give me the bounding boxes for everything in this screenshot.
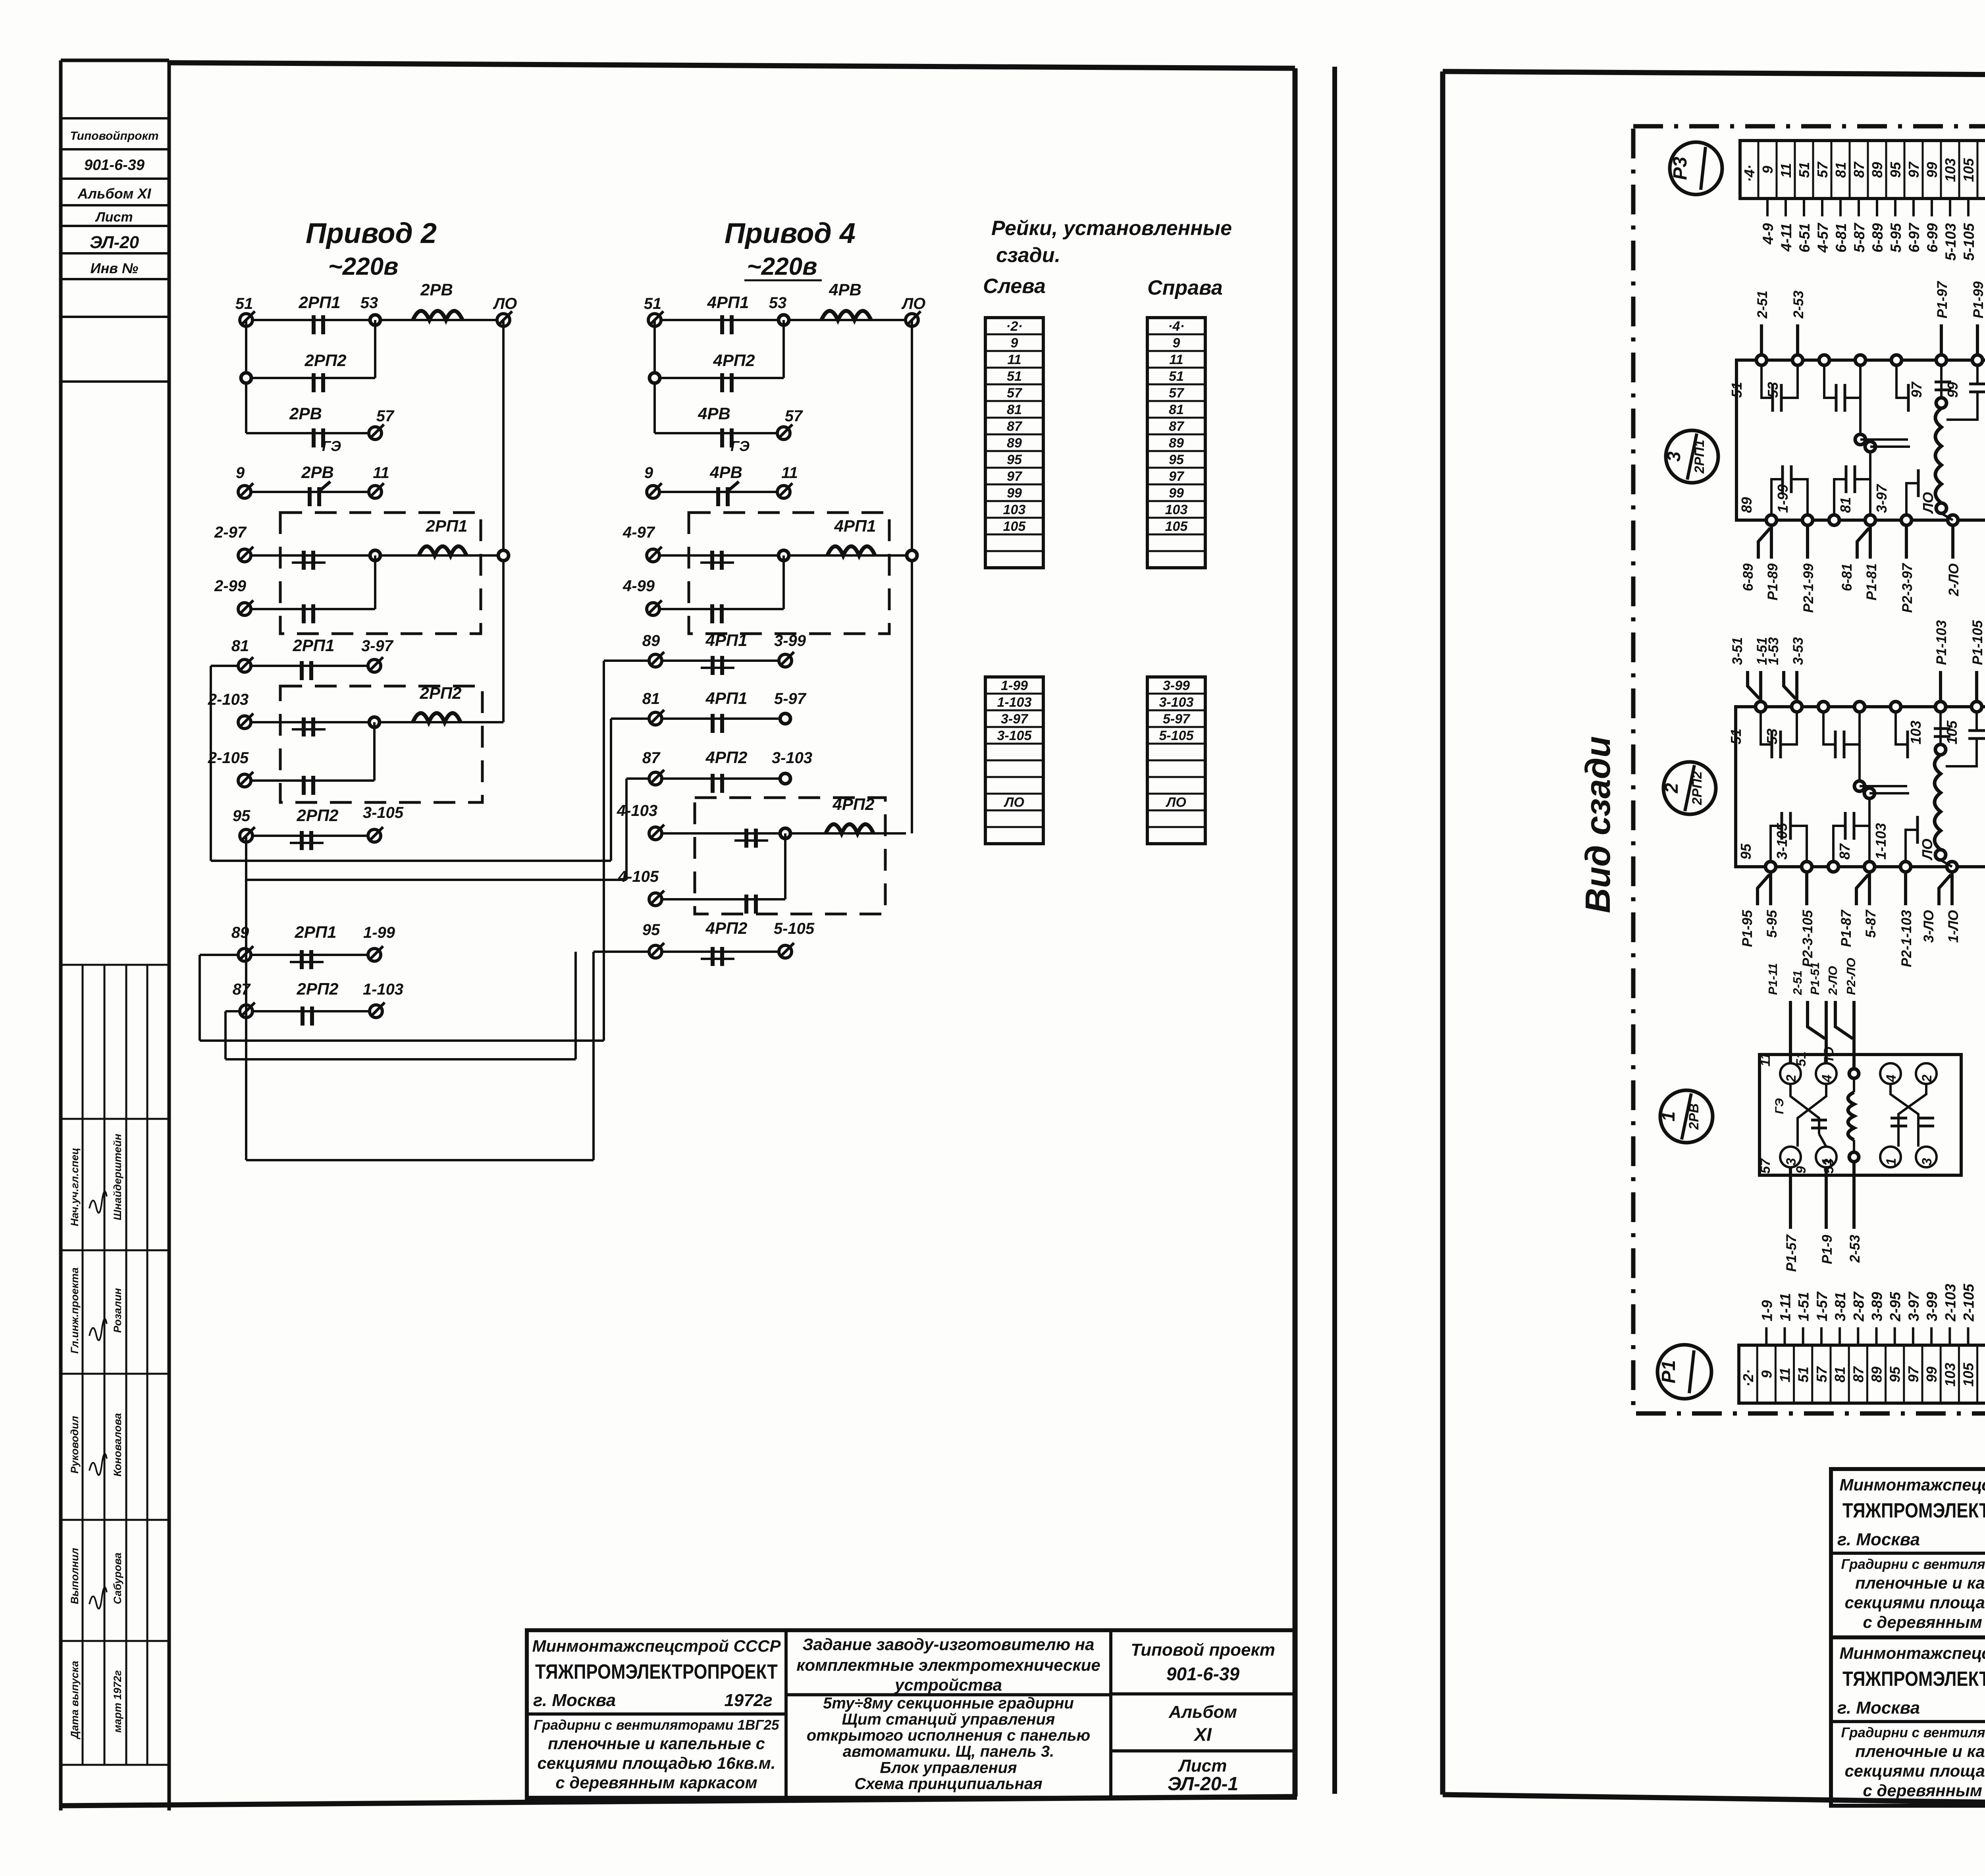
svg-text:·4·: ·4· bbox=[1741, 165, 1758, 182]
svg-text:51: 51 bbox=[235, 295, 253, 312]
relay coil 2РВ bbox=[413, 280, 463, 320]
terminal rail Р1 designation circle bbox=[1657, 1345, 1711, 1399]
svg-text:1: 1 bbox=[1658, 1111, 1679, 1122]
svg-text:1-ЛО: 1-ЛО bbox=[1946, 910, 1961, 943]
svg-text:9: 9 bbox=[1760, 166, 1776, 174]
svg-text:г. Москва: г. Москва bbox=[1837, 1530, 1920, 1549]
svg-text:4: 4 bbox=[1819, 1074, 1835, 1082]
svg-text:ГЭ: ГЭ bbox=[322, 438, 341, 454]
svg-text:Р2-1-99: Р2-1-99 bbox=[1801, 563, 1816, 613]
svg-text:2-53: 2-53 bbox=[1847, 1234, 1863, 1263]
svg-text:Лист: Лист bbox=[94, 210, 133, 225]
relay block 1/2РВ outline and internals bbox=[1760, 1055, 1961, 1175]
svg-text:57: 57 bbox=[376, 407, 395, 425]
svg-text:103: 103 bbox=[1908, 721, 1924, 744]
svg-text:105: 105 bbox=[1944, 720, 1960, 744]
svg-text:81: 81 bbox=[1837, 497, 1854, 513]
svg-text:103: 103 bbox=[1942, 158, 1958, 182]
contact row 89 4РП1 3-99 bbox=[604, 631, 806, 675]
svg-text:Р1-97: Р1-97 bbox=[1935, 281, 1950, 318]
terminal 2-97 row: contact and coil 2РП1 bbox=[214, 517, 509, 570]
terminal ЛО (2) bbox=[493, 295, 517, 326]
svg-text:2-95: 2-95 bbox=[1887, 1292, 1904, 1322]
svg-text:секциями площадью 16кв.м.: секциями площадью 16кв.м. bbox=[537, 1754, 775, 1772]
svg-text:Р1-89: Р1-89 bbox=[1765, 563, 1781, 600]
svg-text:81: 81 bbox=[642, 690, 660, 708]
svg-text:105: 105 bbox=[1003, 519, 1026, 534]
svg-text:г. Москва: г. Москва bbox=[533, 1691, 616, 1710]
svg-text:2РП1: 2РП1 bbox=[293, 636, 335, 655]
svg-text:пленочные и капельные с: пленочные и капельные с bbox=[1855, 1742, 1985, 1760]
svg-text:устройства: устройства bbox=[894, 1675, 1002, 1694]
svg-text:ТЯЖПРОМЭЛЕКТРОПРОЕКТ: ТЯЖПРОМЭЛЕКТРОПРОЕКТ bbox=[1842, 1500, 1985, 1522]
svg-text:4РВ: 4РВ bbox=[709, 463, 742, 482]
relay coil 4РВ bbox=[821, 280, 871, 320]
svg-text:Типовой проект: Типовой проект bbox=[1131, 1640, 1275, 1660]
svg-text:103: 103 bbox=[1003, 502, 1026, 517]
svg-text:Градирни с вентиляторами 1ВГ25: Градирни с вентиляторами 1ВГ25 bbox=[1841, 1557, 1985, 1572]
svg-text:5-87: 5-87 bbox=[1863, 909, 1879, 938]
svg-text:2: 2 bbox=[1784, 1074, 1799, 1082]
svg-text:Градирни с вентиляторами 1ВГ25: Градирни с вентиляторами 1ВГ25 bbox=[534, 1717, 779, 1733]
svg-text:57: 57 bbox=[1814, 161, 1831, 178]
svg-text:3-105: 3-105 bbox=[1774, 823, 1790, 860]
svg-text:87: 87 bbox=[1007, 419, 1023, 434]
svg-text:4-97: 4-97 bbox=[622, 524, 655, 541]
relay block 3/2РП1 leads and wire labels bbox=[1729, 281, 1985, 613]
terminal rail table Слева (upper) bbox=[985, 318, 1043, 568]
svg-text:9: 9 bbox=[1011, 335, 1018, 351]
svg-text:Р1-95: Р1-95 bbox=[1740, 910, 1755, 947]
svg-text:53: 53 bbox=[1764, 729, 1780, 744]
svg-text:5-87: 5-87 bbox=[1851, 222, 1867, 253]
contact row 87 4РП2 3-103 bbox=[626, 748, 812, 793]
contact 2РП2 (parallel branch) bbox=[241, 320, 375, 433]
svg-text:51: 51 bbox=[1007, 369, 1022, 384]
dashed enclosure 4РП2 relay unit bbox=[695, 798, 885, 914]
svg-text:89: 89 bbox=[1869, 162, 1885, 178]
svg-text:ЛО: ЛО bbox=[1165, 795, 1186, 810]
svg-text:3-97: 3-97 bbox=[1873, 484, 1890, 513]
svg-text:89: 89 bbox=[642, 632, 660, 650]
svg-text:6-81: 6-81 bbox=[1839, 563, 1855, 591]
contact row 95 2РП2 3-105 bbox=[233, 804, 404, 850]
terminal 4-103 row: contact and coil 4РП2 bbox=[617, 795, 906, 848]
terminal 2-99 row: contact 2РП2 bbox=[214, 555, 375, 623]
svg-text:81: 81 bbox=[231, 637, 249, 655]
svg-text:автоматики. Щ, панель 3.: автоматики. Щ, панель 3. bbox=[843, 1743, 1054, 1760]
svg-text:2-51: 2-51 bbox=[1755, 291, 1770, 319]
svg-text:Блок управления: Блок управления bbox=[880, 1759, 1017, 1776]
svg-text:·2·: ·2· bbox=[1006, 319, 1023, 334]
svg-text:2: 2 bbox=[1661, 783, 1682, 794]
svg-text:95: 95 bbox=[233, 807, 251, 825]
svg-text:ЭЛ-20: ЭЛ-20 bbox=[90, 233, 139, 252]
svg-text:ГЭ: ГЭ bbox=[1773, 1098, 1786, 1114]
contact row 81 4РП1 5-97 bbox=[611, 689, 807, 733]
svg-text:97: 97 bbox=[1908, 381, 1925, 398]
panel outline (dash-dot) Вид сзади bbox=[1633, 126, 1985, 1413]
svg-text:Привод 4: Привод 4 bbox=[725, 218, 856, 249]
svg-text:57: 57 bbox=[785, 407, 803, 425]
svg-text:87: 87 bbox=[642, 749, 661, 767]
svg-text:105: 105 bbox=[1165, 519, 1188, 534]
contact 2РВ ГЭ branch with terminal 57 bbox=[246, 404, 395, 454]
svg-text:3-51: 3-51 bbox=[1730, 637, 1745, 665]
svg-text:4РП2: 4РП2 bbox=[705, 919, 748, 937]
dashed enclosure 2РП2 relay unit bbox=[280, 686, 482, 802]
svg-text:2-51: 2-51 bbox=[1790, 970, 1804, 995]
svg-text:Градирни с вентиляторами 1ВГ25: Градирни с вентиляторами 1ВГ25 bbox=[1841, 1725, 1985, 1741]
svg-text:Альбом: Альбом bbox=[1168, 1702, 1237, 1722]
svg-text:9: 9 bbox=[236, 464, 245, 482]
svg-text:март 1972г: март 1972г bbox=[112, 1670, 123, 1733]
svg-text:51: 51 bbox=[1796, 162, 1812, 178]
svg-text:Коновалова: Коновалова bbox=[112, 1413, 123, 1477]
terminal rail Р1 strip bbox=[1739, 1283, 1985, 1403]
svg-text:4: 4 bbox=[1884, 1074, 1899, 1082]
svg-text:1-103: 1-103 bbox=[1873, 823, 1889, 860]
wire row 51-2РП1-53-2РВ-ЛО bbox=[246, 319, 503, 321]
svg-text:9: 9 bbox=[1173, 335, 1180, 351]
centre separation lines between sheets bbox=[1332, 67, 1337, 1794]
svg-text:3-103: 3-103 bbox=[772, 749, 812, 767]
svg-text:3-53: 3-53 bbox=[1790, 637, 1806, 665]
svg-text:11: 11 bbox=[1007, 352, 1021, 367]
terminal 4-99 row: contact 4РП2 bbox=[622, 555, 784, 623]
svg-text:1-103: 1-103 bbox=[997, 695, 1032, 710]
svg-text:Р1: Р1 bbox=[1658, 1360, 1679, 1384]
svg-text:2-ЛО: 2-ЛО bbox=[1946, 563, 1962, 596]
svg-text:9: 9 bbox=[1758, 1370, 1775, 1378]
svg-text:2-99: 2-99 bbox=[214, 577, 247, 595]
svg-text:51: 51 bbox=[1794, 1051, 1809, 1066]
svg-text:9: 9 bbox=[644, 464, 653, 482]
svg-text:3-89: 3-89 bbox=[1869, 1292, 1885, 1321]
svg-text:комплектные электротехнические: комплектные электротехнические bbox=[796, 1656, 1100, 1674]
svg-text:2РП2: 2РП2 bbox=[1690, 771, 1705, 805]
svg-text:4РП1: 4РП1 bbox=[834, 517, 876, 535]
wire ЛО bus (4) bbox=[911, 320, 913, 833]
svg-text:Вид сзади: Вид сзади bbox=[1578, 736, 1617, 913]
svg-text:Щит станций управления: Щит станций управления bbox=[842, 1711, 1055, 1728]
svg-text:57: 57 bbox=[1169, 386, 1185, 401]
svg-text:Р1-87: Р1-87 bbox=[1839, 909, 1854, 947]
svg-text:5-105: 5-105 bbox=[774, 920, 815, 937]
svg-text:81: 81 bbox=[1169, 402, 1184, 417]
svg-text:5-97: 5-97 bbox=[774, 690, 807, 708]
svg-text:5-95: 5-95 bbox=[1764, 910, 1780, 938]
svg-text:5-105: 5-105 bbox=[1159, 728, 1194, 743]
heading Рейки, установленные сзади bbox=[983, 217, 1232, 299]
svg-text:99: 99 bbox=[1924, 162, 1940, 178]
svg-text:51: 51 bbox=[1169, 369, 1184, 384]
relay block 2/2РП2 outline and internals bbox=[1736, 702, 1985, 872]
svg-text:Р1-51: Р1-51 bbox=[1808, 962, 1822, 995]
heading Привод 2 ~220в bbox=[306, 218, 437, 280]
svg-text:Р1-105: Р1-105 bbox=[1970, 620, 1985, 665]
svg-text:Инв №: Инв № bbox=[91, 260, 139, 276]
svg-text:Лист: Лист bbox=[1178, 1756, 1227, 1776]
svg-text:53: 53 bbox=[1821, 1159, 1837, 1174]
svg-text:51: 51 bbox=[1728, 729, 1744, 744]
svg-text:87: 87 bbox=[233, 981, 251, 998]
svg-text:г. Москва: г. Москва bbox=[1837, 1698, 1920, 1718]
svg-text:6-81: 6-81 bbox=[1833, 223, 1849, 253]
svg-text:87: 87 bbox=[1837, 843, 1853, 860]
svg-text:2РП1: 2РП1 bbox=[426, 517, 468, 535]
svg-text:с деревянным каркасом: с деревянным каркасом bbox=[555, 1773, 757, 1792]
svg-text:6-99: 6-99 bbox=[1924, 223, 1941, 253]
svg-text:ЛО: ЛО bbox=[1003, 795, 1024, 810]
relay block 2/2РП2 designation circle bbox=[1661, 762, 1716, 814]
svg-text:4РП1: 4РП1 bbox=[705, 631, 748, 650]
svg-text:с деревянным каркасом: с деревянным каркасом bbox=[1863, 1781, 1985, 1800]
terminal 51 (4) bbox=[644, 295, 663, 326]
svg-text:Шнайдерштейн: Шнайдерштейн bbox=[112, 1134, 123, 1220]
svg-text:1-103: 1-103 bbox=[363, 981, 403, 998]
svg-text:Р1-99: Р1-99 bbox=[1971, 281, 1985, 318]
svg-text:секциями площадью 16кв.м.: секциями площадью 16кв.м. bbox=[1844, 1762, 1985, 1780]
right sheet frame bbox=[1443, 71, 1985, 1810]
terminal 2-105 row: contact 2РП2 lower bbox=[208, 722, 374, 795]
svg-text:Сабурова: Сабурова bbox=[112, 1552, 123, 1604]
svg-text:2РП1: 2РП1 bbox=[299, 293, 341, 312]
svg-text:51: 51 bbox=[1795, 1367, 1812, 1382]
svg-text:Выполнил: Выполнил bbox=[69, 1548, 81, 1604]
svg-text:95: 95 bbox=[1887, 1366, 1903, 1382]
right sheet title block upper (ЭЛ-20-2) bbox=[1831, 1469, 1985, 1637]
svg-text:~220в: ~220в bbox=[328, 253, 398, 280]
svg-text:4-57: 4-57 bbox=[1815, 222, 1831, 253]
svg-text:3-105: 3-105 bbox=[997, 728, 1032, 743]
dashed enclosure 2РП1 relay unit bbox=[280, 513, 481, 634]
svg-text:2РП2: 2РП2 bbox=[297, 806, 339, 825]
svg-text:4-105: 4-105 bbox=[618, 868, 659, 885]
svg-text:3-ЛО: 3-ЛО bbox=[1921, 910, 1937, 943]
svg-text:901-6-39: 901-6-39 bbox=[84, 157, 145, 174]
svg-text:1-51: 1-51 bbox=[1796, 1292, 1812, 1321]
svg-text:103: 103 bbox=[1942, 1363, 1958, 1386]
svg-text:57: 57 bbox=[1758, 1158, 1773, 1174]
svg-text:2РП1: 2РП1 bbox=[295, 923, 337, 941]
svg-text:4-9: 4-9 bbox=[1760, 223, 1776, 245]
svg-text:Слева: Слева bbox=[983, 275, 1046, 298]
svg-text:ГЭ: ГЭ bbox=[730, 438, 750, 454]
left sheet frame and margin strip bbox=[61, 60, 1295, 1810]
wire lower return to 95(4) bbox=[246, 952, 594, 1160]
relay block 2/2РП2 leads and wire labels bbox=[1728, 620, 1985, 967]
svg-text:Рейки, установленные: Рейки, установленные bbox=[991, 217, 1232, 240]
terminal 4-97 row: contact and coil 4РП1 bbox=[622, 517, 917, 570]
svg-text:11: 11 bbox=[1169, 352, 1183, 367]
contact row 95 4РП2 5-105 bbox=[594, 919, 815, 966]
svg-text:2-87: 2-87 bbox=[1850, 1291, 1867, 1322]
svg-text:ЭЛ-20-1: ЭЛ-20-1 bbox=[1168, 1774, 1238, 1795]
svg-text:2-53: 2-53 bbox=[1791, 290, 1806, 319]
svg-text:89: 89 bbox=[1007, 436, 1022, 451]
terminal 2-103 row: contact and coil 2РП2 bbox=[208, 684, 503, 737]
svg-text:2РП2: 2РП2 bbox=[297, 979, 339, 998]
svg-text:95: 95 bbox=[1169, 452, 1184, 467]
svg-text:Справа: Справа bbox=[1147, 276, 1223, 299]
contact row 89 2РП1 1-99 bbox=[200, 923, 395, 969]
svg-text:2РП2: 2РП2 bbox=[420, 684, 462, 702]
svg-text:51: 51 bbox=[1729, 382, 1745, 398]
svg-text:секциями площадью 16кв.м.: секциями площадью 16кв.м. bbox=[1844, 1593, 1985, 1612]
svg-text:4РП2: 4РП2 bbox=[833, 795, 875, 814]
svg-text:Р1-103: Р1-103 bbox=[1934, 620, 1949, 665]
svg-text:·2·: ·2· bbox=[1740, 1369, 1756, 1387]
svg-text:95: 95 bbox=[642, 921, 660, 939]
contact 4РВ timing (9-11) bbox=[644, 463, 798, 506]
margin stamp table (Типовой проект / 901-6-39 / Альбом / Лист / ЭЛ-20 / Инв №) bbox=[61, 118, 169, 382]
svg-text:95: 95 bbox=[1738, 843, 1754, 860]
svg-text:Р1-9: Р1-9 bbox=[1819, 1234, 1835, 1264]
svg-text:6-89: 6-89 bbox=[1869, 223, 1886, 253]
svg-text:105: 105 bbox=[1960, 158, 1977, 182]
svg-text:4РП1: 4РП1 bbox=[705, 689, 748, 708]
svg-text:97: 97 bbox=[1169, 469, 1185, 484]
contact 4РВ ГЭ branch with terminal 57 bbox=[655, 404, 803, 454]
svg-text:пленочные и капельные с: пленочные и капельные с bbox=[548, 1734, 765, 1753]
svg-text:2РВ: 2РВ bbox=[301, 463, 334, 482]
terminal rail Р3 strip bbox=[1740, 141, 1985, 261]
svg-text:6-51: 6-51 bbox=[1796, 223, 1813, 253]
svg-text:2-105: 2-105 bbox=[1961, 1283, 1977, 1322]
svg-text:Р1-57: Р1-57 bbox=[1784, 1234, 1799, 1272]
svg-text:11: 11 bbox=[1758, 1053, 1773, 1066]
margin signature table bbox=[61, 965, 169, 1765]
terminal 4-105 row: contact 4РП2 lower bbox=[618, 833, 785, 914]
contact 2РВ timing (9-11) bbox=[236, 463, 389, 506]
svg-text:Руководил: Руководил bbox=[69, 1416, 81, 1474]
svg-text:89: 89 bbox=[1169, 436, 1184, 451]
relay block 3/2РП1 designation circle bbox=[1663, 430, 1718, 483]
svg-text:4-103: 4-103 bbox=[617, 802, 657, 819]
svg-text:2-103: 2-103 bbox=[1942, 1284, 1958, 1322]
svg-text:9: 9 bbox=[1794, 1166, 1809, 1174]
svg-text:5-95: 5-95 bbox=[1888, 223, 1904, 253]
svg-text:2РП2: 2РП2 bbox=[304, 351, 347, 370]
svg-text:99: 99 bbox=[1007, 486, 1022, 501]
svg-text:Минмонтажспецстрой СССР: Минмонтажспецстрой СССР bbox=[1840, 1475, 1985, 1494]
svg-text:2-105: 2-105 bbox=[208, 749, 249, 767]
svg-text:53: 53 bbox=[1765, 382, 1781, 398]
svg-text:ТЯЖПРОМЭЛЕКТРОПРОЕКТ: ТЯЖПРОМЭЛЕКТРОПРОЕКТ bbox=[535, 1661, 778, 1683]
svg-text:ЛО: ЛО bbox=[1821, 1047, 1837, 1068]
svg-text:1-11: 1-11 bbox=[1777, 1293, 1794, 1321]
svg-text:87: 87 bbox=[1851, 161, 1867, 178]
svg-text:11: 11 bbox=[1778, 163, 1794, 178]
wire ЛО bus (2) bbox=[502, 320, 505, 722]
svg-text:Привод 2: Привод 2 bbox=[306, 218, 437, 249]
svg-text:81: 81 bbox=[1007, 402, 1022, 417]
svg-text:3-99: 3-99 bbox=[1924, 1292, 1940, 1321]
svg-text:3-99: 3-99 bbox=[774, 632, 806, 650]
svg-text:4РП2: 4РП2 bbox=[705, 748, 748, 767]
relay block 1/2РВ leads and wire labels bbox=[1758, 958, 1863, 1272]
wire 95(2) to 87(4) bbox=[246, 779, 626, 1160]
svg-text:5-103: 5-103 bbox=[1943, 223, 1959, 261]
svg-text:3: 3 bbox=[1784, 1158, 1799, 1165]
svg-text:89: 89 bbox=[1869, 1367, 1885, 1382]
svg-text:1-57: 1-57 bbox=[1814, 1291, 1830, 1321]
svg-text:4РП1: 4РП1 bbox=[707, 293, 749, 312]
svg-text:87: 87 bbox=[1169, 419, 1185, 434]
svg-text:97: 97 bbox=[1906, 161, 1922, 178]
svg-text:3-81: 3-81 bbox=[1832, 1292, 1848, 1321]
svg-text:901-6-39: 901-6-39 bbox=[1166, 1664, 1240, 1684]
svg-text:Альбом XI: Альбом XI bbox=[77, 185, 152, 202]
svg-text:ЛО: ЛО bbox=[901, 295, 926, 312]
svg-text:1-99: 1-99 bbox=[1775, 484, 1791, 513]
svg-text:Р2-1-103: Р2-1-103 bbox=[1899, 910, 1914, 967]
svg-text:с деревянным каркасом: с деревянным каркасом bbox=[1863, 1613, 1985, 1631]
svg-text:4РВ: 4РВ bbox=[698, 404, 730, 423]
svg-text:89: 89 bbox=[1738, 497, 1755, 513]
svg-text:Задание заводу-изготовителю на: Задание заводу-изготовителю на bbox=[803, 1635, 1095, 1654]
svg-text:11: 11 bbox=[1777, 1368, 1793, 1382]
svg-text:Нач.уч.гл.спец: Нач.уч.гл.спец bbox=[69, 1148, 81, 1226]
terminal rail table Справа (upper) bbox=[1147, 318, 1205, 568]
svg-text:ТЯЖПРОМЭЛЕКТРОПРОЕКТ: ТЯЖПРОМЭЛЕКТРОПРОЕКТ bbox=[1842, 1668, 1985, 1691]
svg-text:пленочные и капельные с: пленочные и капельные с bbox=[1855, 1573, 1985, 1592]
right sheet title block lower (ЭЛ-20) bbox=[1831, 1637, 1985, 1806]
svg-text:1972г: 1972г bbox=[724, 1691, 772, 1710]
svg-text:4-11: 4-11 bbox=[1778, 223, 1794, 252]
svg-text:3-99: 3-99 bbox=[1163, 678, 1190, 693]
svg-text:1-99: 1-99 bbox=[363, 924, 395, 941]
svg-text:11: 11 bbox=[781, 464, 798, 482]
node 53 (4) bbox=[769, 294, 789, 325]
terminal rail table Слева (lower) bbox=[985, 677, 1043, 844]
svg-text:97: 97 bbox=[1905, 1366, 1921, 1382]
svg-text:Р1-11: Р1-11 bbox=[1766, 963, 1780, 995]
svg-text:3-105: 3-105 bbox=[363, 804, 404, 821]
contact 2РП1 (51-53) bbox=[299, 293, 341, 334]
svg-text:1-99: 1-99 bbox=[1001, 678, 1028, 693]
svg-text:Схема принципиальная: Схема принципиальная bbox=[854, 1775, 1042, 1793]
svg-text:ЛО: ЛО bbox=[493, 295, 517, 312]
svg-text:3: 3 bbox=[1919, 1158, 1935, 1165]
svg-text:81: 81 bbox=[1832, 1367, 1848, 1382]
svg-text:3-97: 3-97 bbox=[361, 637, 394, 655]
contact 4РП1 (51-53) bbox=[707, 293, 749, 334]
svg-text:81: 81 bbox=[1833, 162, 1849, 178]
svg-text:2РП1: 2РП1 bbox=[1692, 440, 1707, 474]
svg-text:6-89: 6-89 bbox=[1740, 563, 1756, 591]
svg-text:3-97: 3-97 bbox=[1906, 1291, 1922, 1321]
svg-text:3: 3 bbox=[1663, 451, 1684, 462]
svg-text:105: 105 bbox=[1960, 1362, 1977, 1386]
svg-text:4РП2: 4РП2 bbox=[713, 351, 755, 370]
svg-text:Минмонтажспецстрой СССР: Минмонтажспецстрой СССР bbox=[1840, 1644, 1985, 1662]
svg-text:открытого исполнения с панелью: открытого исполнения с панелью bbox=[807, 1727, 1091, 1744]
svg-text:Р3: Р3 bbox=[1670, 156, 1691, 180]
svg-text:3-103: 3-103 bbox=[1159, 695, 1194, 710]
svg-text:57: 57 bbox=[1813, 1366, 1830, 1382]
svg-text:103: 103 bbox=[1165, 502, 1188, 517]
contact row 81 2РП1 3-97 bbox=[211, 636, 394, 680]
wire 81(2) to 81(4) bbox=[211, 666, 611, 861]
svg-text:2РВ: 2РВ bbox=[289, 404, 322, 423]
svg-text:2-103: 2-103 bbox=[208, 691, 249, 708]
svg-text:6-97: 6-97 bbox=[1906, 222, 1922, 253]
svg-text:57: 57 bbox=[1007, 386, 1023, 401]
svg-text:2-ЛО: 2-ЛО bbox=[1826, 966, 1840, 995]
svg-text:XI: XI bbox=[1193, 1724, 1212, 1745]
